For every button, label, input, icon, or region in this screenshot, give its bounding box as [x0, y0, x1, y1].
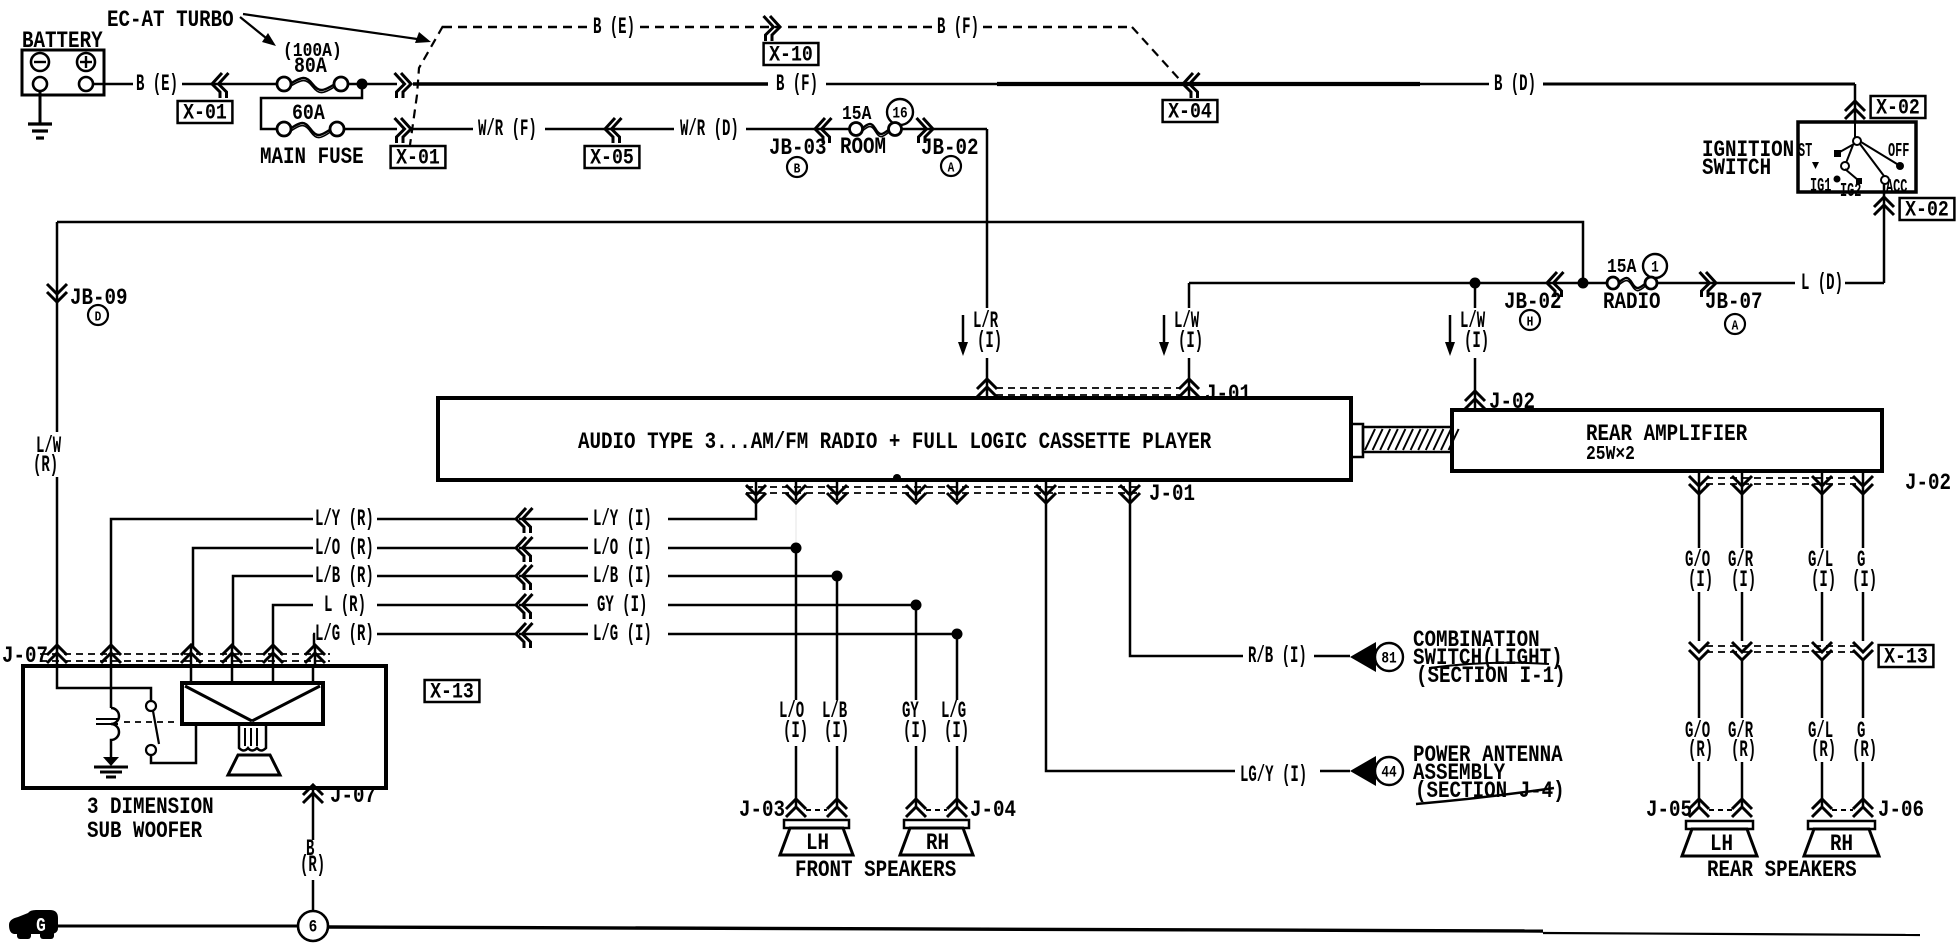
- junction 80A/60A: [357, 79, 368, 90]
- rear amp pin x=1699: [1698, 471, 1701, 490]
- connector chevron X-02 top: [1845, 101, 1865, 111]
- svg-text:J-01: J-01: [1149, 482, 1195, 508]
- wire: [377, 518, 516, 521]
- wire B(F) thick: [413, 82, 768, 86]
- rear speaker RH: [1808, 821, 1875, 829]
- wire ACC out: [1883, 184, 1886, 283]
- svg-text:X-01: X-01: [396, 146, 440, 171]
- connector chevron J-06 R: [1853, 799, 1873, 809]
- junction L/B: [832, 571, 843, 582]
- circled 6 ground point: [298, 911, 328, 941]
- junction on audio box edge: [893, 474, 901, 482]
- coil-switch link dashed: [124, 721, 177, 723]
- svg-text:6: 6: [309, 916, 318, 937]
- wire G/R(I): [1741, 490, 1744, 548]
- wire: [519, 518, 588, 521]
- svg-text:L (R): L (R): [324, 592, 366, 619]
- connector J-04 dashes: [926, 809, 947, 811]
- ground (battery): [39, 91, 42, 124]
- svg-text:(SECTION J-4): (SECTION J-4): [1415, 779, 1565, 805]
- svg-text:L/O (I): L/O (I): [593, 535, 652, 562]
- junction L/G: [952, 629, 963, 640]
- wire B(R) from sub woofer: [312, 788, 315, 840]
- wire: [1541, 282, 1607, 285]
- sub woofer speaker rect: [182, 683, 323, 724]
- svg-text:L/O (R): L/O (R): [315, 535, 374, 562]
- svg-text:J-05: J-05: [1646, 798, 1692, 824]
- wire: [545, 128, 674, 131]
- connector chevron J-07 x=273: [263, 645, 283, 655]
- dashed diagonal to X-04: [1132, 27, 1180, 80]
- wire B(D) thin: [1420, 83, 1489, 86]
- wire: [182, 83, 277, 86]
- connector chevron J-07 x=232: [222, 645, 242, 655]
- junction L/O: [791, 543, 802, 554]
- connector chevron X-01 out: [401, 73, 411, 98]
- connector chevron J-07 x=191: [181, 645, 201, 655]
- circled 81: [1375, 643, 1403, 671]
- battery minus terminal: [31, 53, 49, 71]
- connector J-01 bottom dashed: [746, 486, 1140, 488]
- wire to corner: [902, 128, 987, 131]
- sub woofer cone: [228, 755, 280, 775]
- svg-text:(R): (R): [1731, 737, 1756, 764]
- connector chevron X-05: [605, 118, 615, 143]
- ground bus mid: [328, 927, 1543, 931]
- wire L/O(R) to sub woofer: [193, 548, 313, 648]
- svg-text:X-02: X-02: [1876, 96, 1920, 121]
- boxed label X-13 (right): [1879, 645, 1934, 667]
- circled 44: [1375, 757, 1403, 785]
- arrow to dashed EC-AT wire: [243, 14, 424, 40]
- wire G/L(I): [1821, 490, 1824, 548]
- connector chevron X-13 G: [1853, 650, 1873, 660]
- junction GY: [911, 600, 922, 611]
- svg-text:RADIO: RADIO: [1603, 290, 1661, 316]
- wire: [746, 128, 851, 131]
- wire G(I): [1862, 490, 1865, 548]
- rear amp pin x=1863: [1862, 471, 1865, 490]
- connector chevron J-07 x=315: [305, 645, 325, 655]
- fuse 80A MAIN: [290, 78, 335, 90]
- svg-text:EC-AT TURBO: EC-AT TURBO: [107, 8, 234, 34]
- wire branch to 60A fuse: [261, 84, 362, 129]
- battery plus terminal: [77, 53, 95, 71]
- wire L(R) to sub woofer: [273, 605, 313, 648]
- circled H: [1520, 310, 1540, 330]
- svg-text:15A: 15A: [1607, 257, 1637, 279]
- wire L/W(R) vertical upper: [56, 222, 59, 432]
- sub woofer pin x=232: [231, 666, 234, 683]
- wire L/B segment: [668, 575, 837, 578]
- ground bus left: [58, 925, 298, 928]
- connector J-07 dashed: [40, 653, 330, 655]
- svg-text:J-01: J-01: [1205, 382, 1251, 408]
- wire L/G segment: [668, 633, 957, 636]
- connector chevron J-01 top-left: [977, 379, 997, 389]
- svg-text:SWITCH: SWITCH: [1702, 156, 1771, 182]
- svg-text:J-06: J-06: [1878, 798, 1924, 824]
- wire L/G(I) down: [956, 634, 959, 700]
- connector chevron J-01 pin x=916: [906, 493, 926, 503]
- connector chevron X-01 on W/R: [401, 118, 411, 143]
- wire to combination switch: [1314, 655, 1350, 658]
- svg-text:W/R (D): W/R (D): [680, 116, 739, 143]
- connector chevron X-10: [770, 16, 780, 41]
- connector chevron J-05 R: [1732, 799, 1752, 809]
- svg-text:RH: RH: [926, 831, 949, 857]
- junction ACC feed: [1578, 278, 1589, 289]
- wire L/W(I) vertical: [1188, 283, 1191, 308]
- rear amp pin x=1742: [1741, 471, 1744, 490]
- pin stub: [956, 480, 959, 500]
- sub woofer pin x=191: [190, 666, 193, 683]
- svg-text:H: H: [1527, 313, 1534, 330]
- wire G/O(I): [1698, 490, 1701, 548]
- svg-text:OFF: OFF: [1888, 140, 1909, 162]
- svg-text:J-04: J-04: [970, 798, 1016, 824]
- wire L/W(R) vertical lower: [56, 477, 59, 650]
- sub woofer pin x=313: [312, 666, 315, 683]
- wire: [348, 83, 397, 86]
- svg-text:X-10: X-10: [769, 43, 813, 68]
- boxed label X-04: [1163, 100, 1218, 122]
- ignition switch contacts: [1854, 122, 1856, 138]
- connector chevron J-07 bottom: [303, 785, 323, 795]
- svg-text:ROOM: ROOM: [840, 135, 886, 161]
- svg-text:MAIN FUSE: MAIN FUSE: [260, 145, 364, 171]
- svg-text:(I): (I): [1852, 567, 1877, 594]
- wire B(F) thin: [826, 83, 997, 85]
- connector J-02 bottom dashed: [1706, 477, 1856, 479]
- pin stub: [1045, 480, 1048, 500]
- wire GY segment: [668, 604, 916, 607]
- circled A (top): [941, 156, 961, 176]
- circled 1: [1643, 254, 1667, 278]
- dashed wire: [788, 26, 932, 28]
- svg-text:(R): (R): [1852, 737, 1877, 764]
- wire: [344, 128, 397, 131]
- wire B(F) thick right: [997, 82, 1420, 86]
- svg-text:80A: 80A: [294, 55, 328, 80]
- connector chevron X-13 G/O: [1689, 650, 1709, 660]
- wire L/B(I) down: [836, 576, 839, 700]
- svg-text:(I): (I): [1178, 328, 1203, 355]
- connector chevron J-02 pin x=1699: [1689, 484, 1709, 494]
- svg-text:LH: LH: [806, 831, 829, 857]
- svg-text:A: A: [948, 159, 955, 176]
- svg-text:L/B (I): L/B (I): [593, 563, 652, 590]
- svg-text:SUB WOOFER: SUB WOOFER: [87, 819, 202, 845]
- connector chevron J-02 pin x=1742: [1732, 484, 1752, 494]
- connector chevron X-01 on B(E): [212, 73, 222, 98]
- svg-text:X-02: X-02: [1905, 198, 1949, 223]
- ground bus right: [1543, 933, 1920, 935]
- arrow to 100A fuse: [240, 17, 271, 42]
- connector chevron X-13 L/G: [516, 623, 526, 648]
- svg-text:FRONT SPEAKERS: FRONT SPEAKERS: [795, 858, 956, 884]
- pin stub: [795, 480, 798, 500]
- svg-text:X-04: X-04: [1168, 100, 1212, 125]
- wire to ACC corner: [1845, 282, 1884, 285]
- dashed wire B(E) EC-AT: [443, 26, 588, 28]
- wire G/O(R): [1698, 658, 1701, 718]
- audio-to-amp connector tab: [1351, 424, 1363, 457]
- svg-text:B (F): B (F): [937, 14, 979, 41]
- svg-text:D: D: [95, 308, 102, 325]
- ground (sub woofer): [110, 746, 113, 757]
- circled B: [787, 157, 807, 177]
- svg-text:LG/Y (I): LG/Y (I): [1240, 762, 1307, 789]
- pin stub: [755, 480, 758, 500]
- wire L/R(I) vertical: [986, 129, 989, 308]
- svg-text:L/Y (I): L/Y (I): [593, 506, 652, 533]
- svg-text:A: A: [1732, 317, 1739, 334]
- dashed wire: [983, 26, 1132, 28]
- svg-text:16: 16: [892, 105, 907, 123]
- connector chevron X-02 bottom: [1874, 197, 1894, 207]
- ignition switch box: [1798, 122, 1916, 192]
- wire G(R): [1862, 658, 1865, 718]
- svg-text:X-13: X-13: [430, 680, 474, 705]
- connector chevron J-03 L: [786, 799, 806, 809]
- wire L/G(R) to sub woofer: [313, 634, 314, 648]
- svg-text:IG1: IG1: [1810, 175, 1832, 197]
- wire L/W(I) to rear amp: [1474, 283, 1477, 308]
- svg-text:(I): (I): [1811, 567, 1836, 594]
- front speaker RH: [904, 820, 969, 828]
- svg-text:B (F): B (F): [776, 71, 818, 98]
- svg-text:(I): (I): [1688, 567, 1713, 594]
- svg-text:(I): (I): [903, 718, 928, 745]
- connector chevron J-01 pin x=837: [827, 493, 847, 503]
- svg-text:60A: 60A: [292, 102, 326, 127]
- wire W/R(F): [413, 128, 473, 131]
- svg-text:J-07: J-07: [330, 784, 376, 810]
- svg-text:81: 81: [1381, 650, 1397, 668]
- svg-text:L/Y (R): L/Y (R): [315, 506, 374, 533]
- wire L/Y segment from audio: [668, 500, 756, 519]
- boxed label X-01 (right): [391, 146, 446, 168]
- boxed label X-05: [585, 146, 640, 168]
- wire battery to B(E) label: [93, 83, 133, 86]
- svg-text:R/B (I): R/B (I): [1248, 643, 1307, 670]
- boxed label X-02 (bottom): [1900, 198, 1955, 220]
- svg-text:(R): (R): [300, 852, 325, 879]
- svg-text:GY (I): GY (I): [597, 592, 647, 619]
- connector chevron J-01 pin x=1046: [1036, 493, 1056, 503]
- circled 16: [887, 99, 913, 125]
- battery negative post: [33, 77, 47, 91]
- sub woofer box: [23, 666, 386, 788]
- wire B(D) to ignition: [1543, 83, 1855, 86]
- pin stub: [836, 480, 839, 500]
- wire G/R(R): [1741, 658, 1744, 718]
- audio unit box: [438, 398, 1351, 480]
- connector chevron J-02 pin x=1863: [1853, 484, 1873, 494]
- wire R/B(I): [1130, 500, 1243, 656]
- junction L/W: [1470, 278, 1481, 289]
- svg-text:ACC: ACC: [1886, 176, 1908, 198]
- wire LG/Y(I): [1046, 500, 1235, 771]
- connector chevron J-06 L: [1812, 799, 1832, 809]
- svg-text:RH: RH: [1830, 832, 1853, 858]
- section arrow 81: [1350, 642, 1376, 672]
- section arrow 44: [1350, 756, 1376, 786]
- connector chevron JB-02 (radio): [1547, 272, 1557, 297]
- connector chevron X-13 G/L: [1812, 650, 1832, 660]
- boxed label X-02 (top): [1871, 96, 1926, 118]
- svg-text:LH: LH: [1710, 832, 1733, 858]
- fuse 60A MAIN: [290, 123, 331, 135]
- connector chevron J-07 x=111: [101, 645, 121, 655]
- sub woofer switch: [146, 701, 156, 711]
- connector chevron J-01 top-right: [1179, 379, 1199, 389]
- hatched ribbon cable: [1363, 427, 1452, 452]
- connector chevron X-13 L: [516, 594, 526, 619]
- svg-text:IG2: IG2: [1840, 180, 1861, 202]
- svg-text:B: B: [794, 160, 801, 177]
- boxed label X-01 (left): [178, 101, 233, 123]
- svg-text:L (D): L (D): [1801, 270, 1843, 297]
- svg-text:ST: ST: [1798, 140, 1812, 162]
- pin stub: [915, 480, 918, 500]
- connector chevron J-01 pin x=796: [786, 493, 806, 503]
- wire L/O segment: [668, 547, 796, 550]
- connector chevron JB-07: [1706, 272, 1716, 297]
- sub woofer pin x=273: [272, 666, 275, 683]
- svg-text:44: 44: [1381, 764, 1397, 782]
- svg-text:25W×2: 25W×2: [1586, 444, 1635, 466]
- wire ACC feed long: [57, 222, 1583, 283]
- svg-text:W/R (F): W/R (F): [478, 116, 537, 143]
- connector chevron J-01 pin x=957: [947, 493, 967, 503]
- svg-text:REAR SPEAKERS: REAR SPEAKERS: [1707, 858, 1857, 884]
- connector chevron J-04 R: [947, 799, 967, 809]
- wire: [1657, 282, 1795, 285]
- sub woofer coil: [111, 708, 119, 746]
- svg-text:L/G (I): L/G (I): [593, 621, 652, 648]
- svg-text:(I): (I): [824, 718, 849, 745]
- dashed wire: [640, 26, 781, 28]
- battery positive post: [79, 77, 93, 91]
- wire L/B(R) to sub woofer: [233, 576, 313, 648]
- wire to power antenna: [1320, 770, 1350, 773]
- fuse 15A ROOM: [862, 124, 890, 134]
- wire L/O(I) down: [795, 548, 798, 700]
- connector chevron J-02 top: [1465, 391, 1485, 401]
- svg-text:X-01: X-01: [183, 101, 227, 126]
- wire into ignition switch: [1854, 84, 1857, 122]
- connector chevron X-13 G/R: [1732, 650, 1752, 660]
- connector boundary X-01 dashed: [410, 26, 443, 145]
- svg-text:J-03: J-03: [739, 798, 785, 824]
- connector chevron J-04 L: [906, 799, 926, 809]
- wire L/R(I) lower: [986, 358, 989, 398]
- connector chevron J-01 pin x=756: [746, 493, 766, 503]
- wire L/W feed: [1189, 282, 1541, 285]
- connector chevron X-13 L/Y: [516, 508, 526, 533]
- arrow L/R(I): [962, 315, 965, 349]
- svg-text:3 DIMENSION: 3 DIMENSION: [87, 795, 214, 821]
- connector chevron J-05 L: [1689, 799, 1709, 809]
- boxed label X-13 (left): [425, 680, 480, 702]
- svg-text:(I): (I): [1731, 567, 1756, 594]
- rear amp pin x=1822: [1821, 471, 1824, 490]
- wire L/Y(R) to sub woofer: [111, 519, 313, 648]
- svg-text:B (E): B (E): [593, 14, 635, 41]
- connector chevron X-13 L/B: [516, 565, 526, 590]
- svg-text:X-13: X-13: [1884, 645, 1928, 670]
- svg-text:J-02: J-02: [1905, 471, 1951, 497]
- pin stub: [1129, 480, 1132, 500]
- svg-text:(I): (I): [977, 328, 1002, 355]
- connector X-13 right dashed: [1706, 645, 1856, 647]
- battery B1: [22, 50, 104, 95]
- boxed label X-10: [764, 43, 819, 65]
- connector chevron X-04: [1183, 73, 1193, 98]
- connector J-03 dashes: [806, 809, 827, 811]
- sub woofer magnet: [239, 724, 266, 751]
- svg-text:(R): (R): [33, 452, 58, 479]
- connector chevron JB-09: [47, 292, 67, 302]
- svg-text:AUDIO TYPE 3...AM/FM RADIO + F: AUDIO TYPE 3...AM/FM RADIO + FULL LOGIC …: [578, 430, 1212, 456]
- rear speaker LH: [1686, 821, 1753, 829]
- svg-text:G: G: [36, 916, 46, 938]
- svg-text:X-05: X-05: [590, 146, 634, 171]
- ground symbol G (car): [9, 910, 58, 934]
- svg-text:(I): (I): [783, 718, 808, 745]
- svg-text:B (D): B (D): [1494, 71, 1536, 98]
- svg-text:(I): (I): [1464, 328, 1489, 355]
- front speaker LH: [784, 820, 849, 828]
- connector chevron X-13 L/O: [516, 537, 526, 562]
- sub woofer internal wiring: [57, 666, 151, 701]
- connector chevron J-02 pin x=1822: [1812, 484, 1832, 494]
- connector chevron J-07 x=57: [47, 645, 67, 655]
- svg-text:1: 1: [1651, 259, 1659, 277]
- connector chevron JB-02: [923, 118, 933, 143]
- fuse 15A RADIO: [1618, 278, 1646, 288]
- svg-text:(R): (R): [1688, 737, 1713, 764]
- connector chevron J-03 R: [827, 799, 847, 809]
- circled A (radio): [1725, 314, 1745, 334]
- rear amplifier box: [1452, 410, 1882, 471]
- svg-text:(R): (R): [1811, 737, 1836, 764]
- connector chevron JB-03: [815, 118, 825, 143]
- connector J-01 top dashed: [996, 387, 1180, 389]
- svg-text:L/B (R): L/B (R): [315, 563, 374, 590]
- connector chevron J-01 pin x=1130: [1120, 493, 1140, 503]
- svg-text:B (E): B (E): [136, 71, 178, 98]
- svg-text:(I): (I): [944, 718, 969, 745]
- circled D: [88, 305, 108, 325]
- svg-text:L/G (R): L/G (R): [315, 621, 374, 648]
- wire GY(I) down: [915, 605, 918, 700]
- svg-text:JB-07: JB-07: [1705, 290, 1763, 316]
- wire G/L(R): [1821, 658, 1824, 718]
